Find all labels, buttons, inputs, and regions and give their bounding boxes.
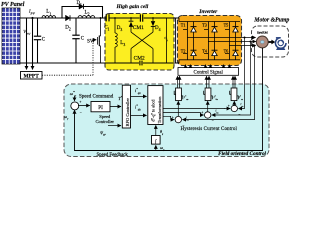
svg-text:Field oriented Control: Field oriented Control (218, 151, 266, 157)
svg-text:CM2: CM2 (134, 55, 145, 61)
svg-text:Transformation: Transformation (157, 96, 162, 123)
svg-text:Controller: Controller (95, 119, 114, 124)
svg-text:Hysteresis Current Control: Hysteresis Current Control (181, 127, 238, 132)
svg-text:de-qe to abcd: de-qe to abcd (150, 99, 156, 122)
svg-text:−: − (80, 111, 82, 115)
svg-text:−: − (238, 112, 240, 116)
svg-text:−: − (212, 119, 214, 123)
svg-text:Motor &Pump: Motor &Pump (253, 17, 289, 23)
svg-text:∫: ∫ (154, 139, 157, 145)
svg-text:CM1: CM1 (133, 25, 144, 31)
svg-text:+: + (172, 115, 174, 119)
svg-text:High gain cell: High gain cell (116, 4, 149, 10)
svg-text:Speed Feedback: Speed Feedback (97, 153, 129, 158)
svg-text:T2: T2 (181, 49, 186, 54)
svg-text:T5: T5 (224, 23, 229, 28)
svg-text:PV Panel: PV Panel (1, 2, 25, 8)
svg-text:Speed Command: Speed Command (79, 95, 114, 100)
svg-text:+: + (201, 111, 203, 115)
svg-text:MPPT: MPPT (24, 74, 40, 80)
svg-text:Speed: Speed (99, 114, 111, 119)
svg-text:Inverter: Inverter (198, 9, 218, 15)
svg-text:+: + (79, 100, 81, 104)
svg-text:Control Signal: Control Signal (194, 70, 224, 75)
svg-text:T6: T6 (224, 49, 229, 54)
svg-text:T1: T1 (181, 23, 186, 28)
svg-text:PI: PI (98, 105, 103, 111)
svg-text:−: − (182, 124, 184, 128)
svg-text:T3: T3 (202, 23, 207, 28)
svg-text:SW: SW (87, 38, 96, 44)
svg-text:+: + (228, 104, 230, 108)
svg-text:BFO Controller: BFO Controller (125, 98, 130, 127)
svg-text:SynRM: SynRM (257, 31, 269, 35)
